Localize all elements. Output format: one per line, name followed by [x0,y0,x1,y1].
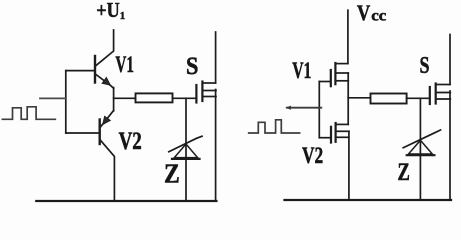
zener Z left cathode bar [172,158,200,160]
zener Z right diagonal stroke [403,130,440,148]
wire V2 source down to rail [348,131,350,200]
wire V2 gate lead [319,137,330,139]
wire output tap to resistor [114,97,136,99]
svg-text:+U: +U [96,0,119,22]
wire V2 base lead [66,132,99,134]
svg-text:S: S [420,53,430,79]
ground rail right [285,199,452,201]
wire V1 gate lead [319,81,330,83]
MOSFET V2: drain stub [336,123,349,125]
transistor V1 base bar [94,56,96,83]
MOSFET V2: substrate stub [336,130,349,132]
svg-text:V1: V1 [292,58,311,83]
wire input line right with arrow end [287,107,321,109]
svg-text:cc: cc [371,7,386,24]
zener diode Z right: triangle [409,140,433,154]
wire +U1 to V1 collector [96,30,114,66]
wire S left source down to rail [215,90,217,202]
wire S right source down to rail [449,91,451,200]
zener Z left diagonal stroke [169,136,202,152]
MOSFET V1: gate bar [330,70,332,86]
MOSFET V2: gate bar [330,127,332,143]
svg-text:V2: V2 [302,143,323,168]
svg-text:1: 1 [120,10,126,22]
wire input line left [40,97,66,99]
square wave input symbol left [2,107,55,120]
MOSFET S left: substrate stub [203,90,216,92]
transistor V2 collector wire to rail [101,140,115,201]
wire S right drain up [449,35,451,85]
MOSFET S right: drain stub [436,84,450,86]
MOSFET V2: channel bar [335,123,337,142]
svg-text:Z: Z [164,159,180,189]
node: mid point vertical wire [113,88,115,111]
svg-text:V: V [357,0,370,25]
MOSFET S right: substrate stub [436,92,450,94]
MOSFET S left: source stub [203,96,216,98]
wire resistor to S gate right [407,97,429,99]
MOSFET V1: channel bar [334,63,336,84]
MOSFET V2: source stub [336,136,349,138]
resistor (gate series) right [371,94,407,104]
wire gate bus vertical right [318,82,320,138]
wire output line to resistor [348,97,370,99]
MOSFET S left: channel bar [201,82,203,102]
MOSFET V1: substrate stub [335,72,348,74]
wire zener branch vertical [185,98,187,201]
svg-text:V1: V1 [115,52,134,77]
transistor V1 emitter with arrow [96,75,114,89]
wire resistor to gate [173,97,196,99]
ground rail left [36,200,216,202]
wire zener branch right [419,98,421,200]
zener diode Z left: triangle [174,144,197,158]
MOSFET S left: drain stub [203,82,216,84]
MOSFET S right: channel bar [435,84,437,104]
svg-text:Z: Z [398,159,410,186]
MOSFET V1: drain stub [335,63,348,65]
transistor V2 emitter with arrow (PNP, arrow toward bar) [101,111,114,127]
square wave input symbol right [249,120,300,133]
MOSFET S right: source stub [436,98,450,100]
MOSFET S right: gate bar [429,87,431,104]
svg-text:S: S [186,53,198,80]
wire Vcc supply down [347,10,349,63]
MOSFET V1: source stub [335,80,348,82]
resistor (gate series) left [136,93,173,102]
zener Z right cathode bar [407,154,435,156]
transistor V2 base bar [98,120,100,145]
svg-text:V2: V2 [119,128,142,155]
MOSFET S left: gate bar [195,85,197,103]
wire S left drain up [215,32,217,83]
wire V1 base lead [66,70,94,72]
wire base bus vertical [65,71,67,133]
wire V1 source conductor down to V2 drain [347,73,349,124]
